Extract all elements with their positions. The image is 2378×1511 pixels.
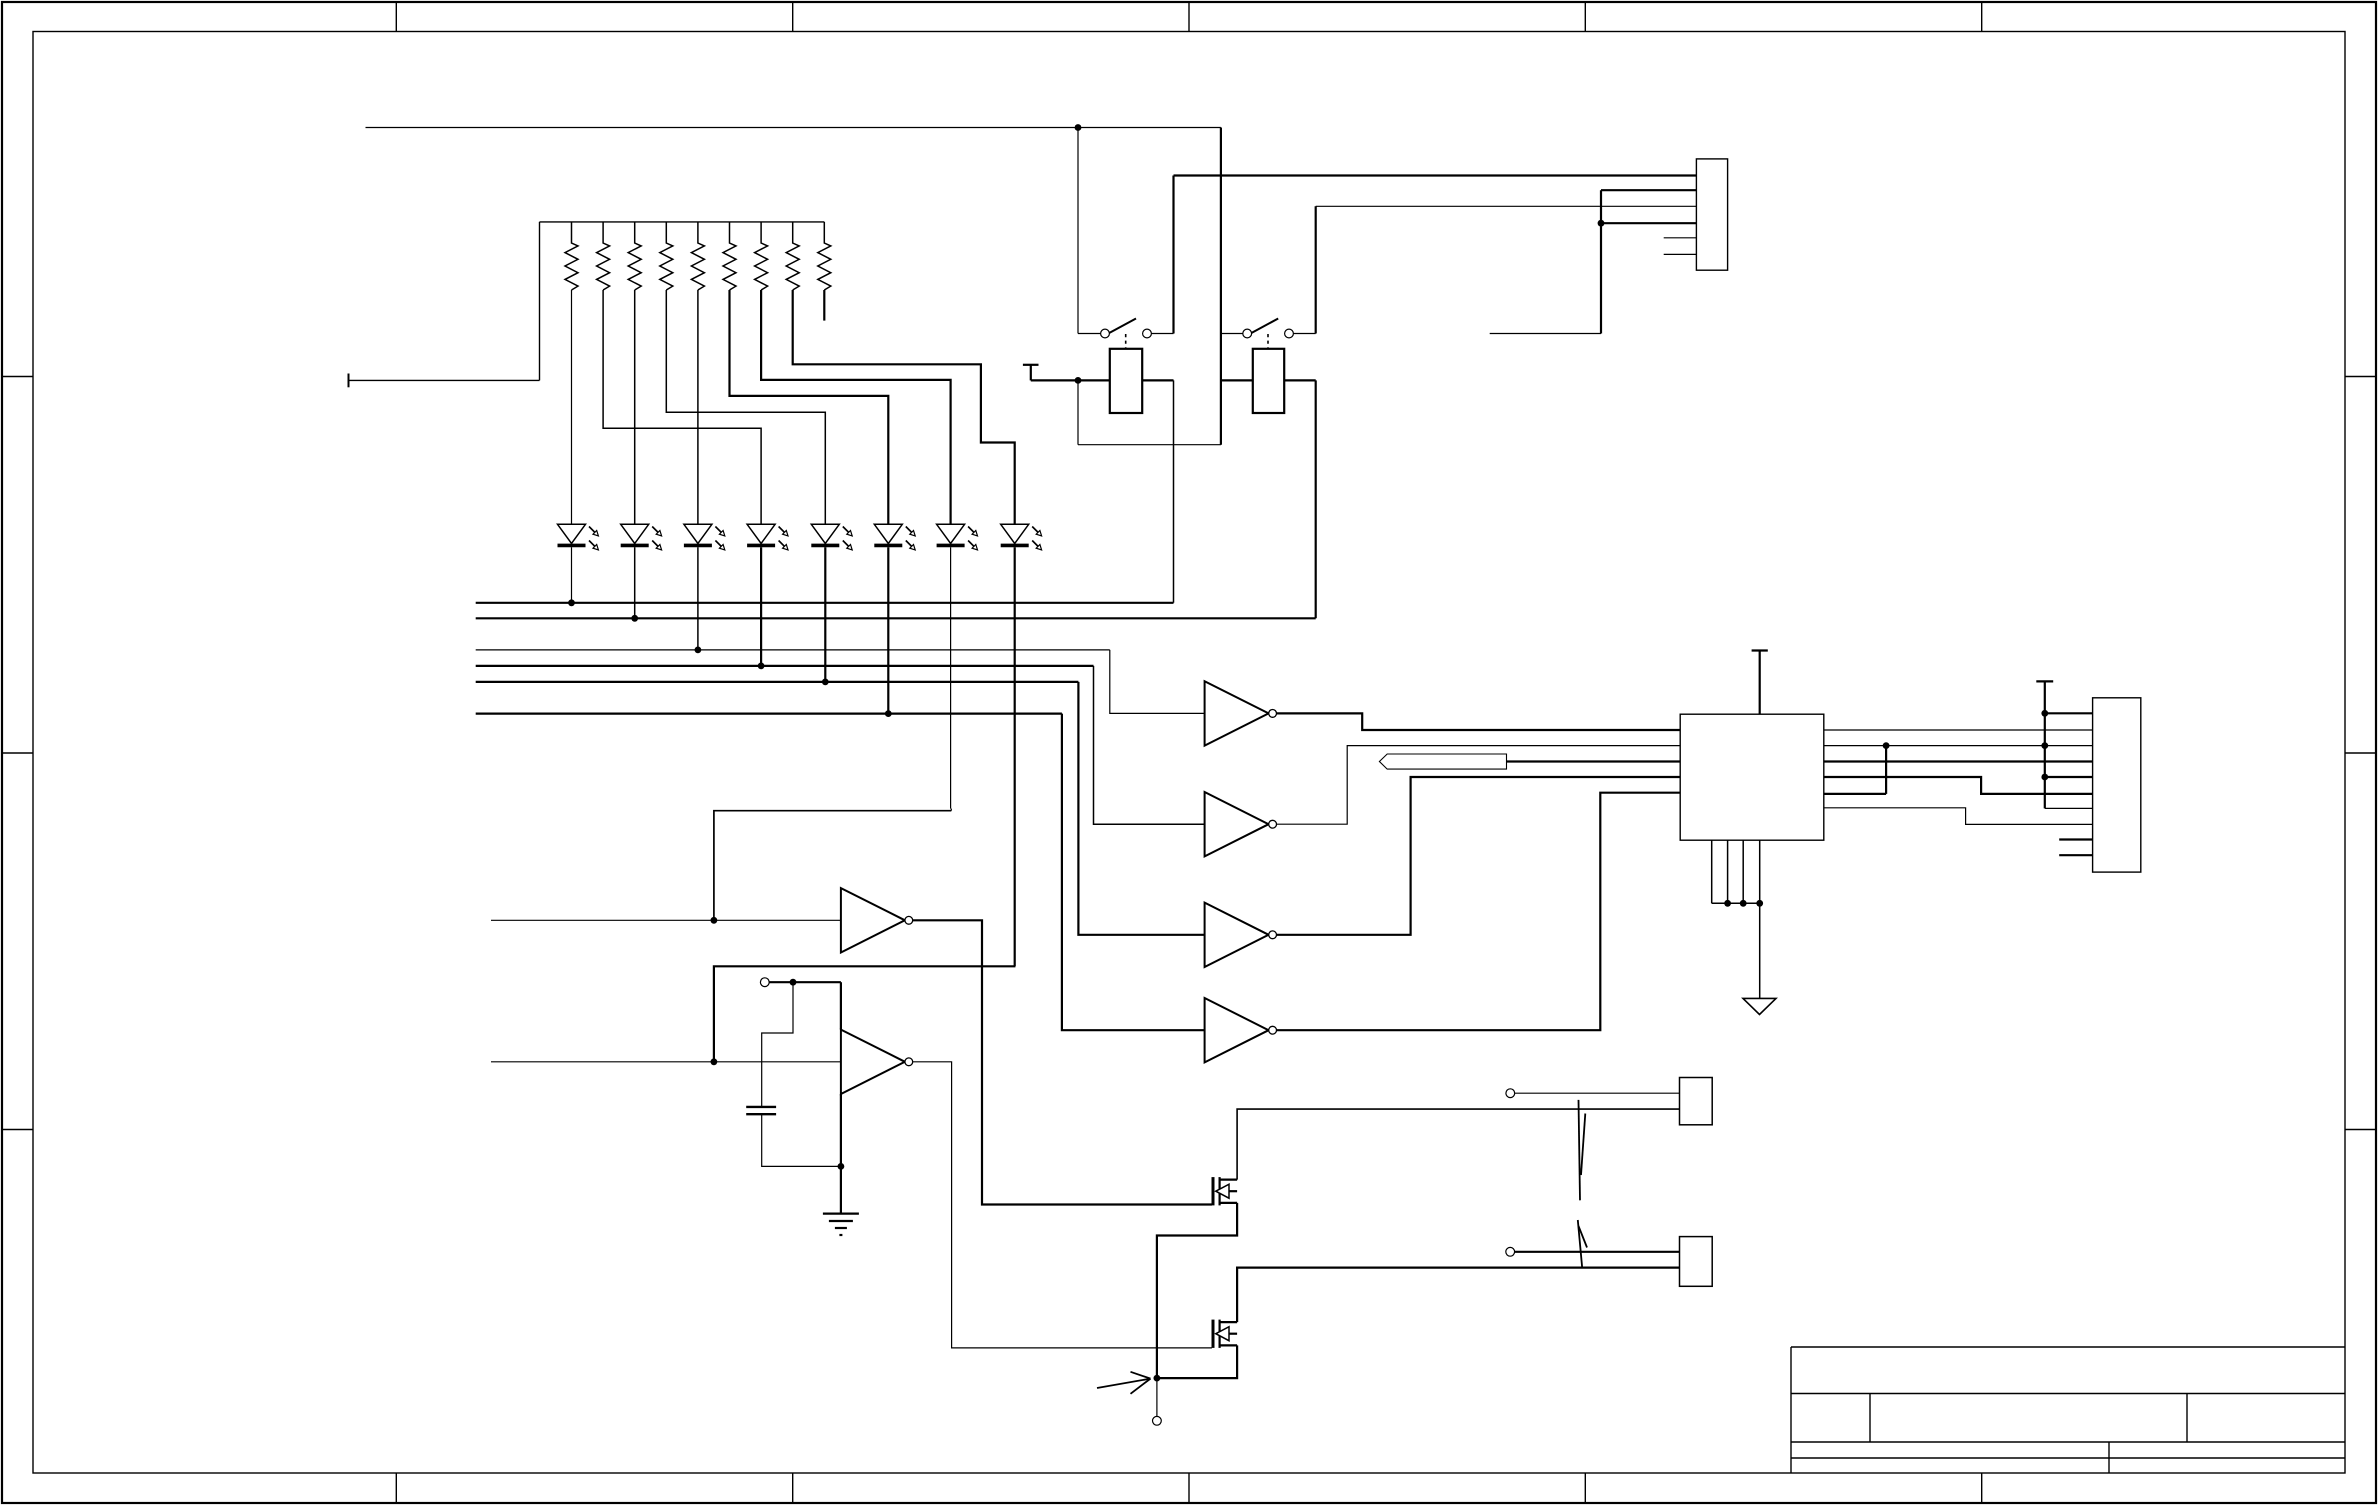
resistor R7 <box>755 222 768 290</box>
switch S1 right contact <box>1143 329 1152 338</box>
wire U5 pin row F jog <box>1824 808 2093 825</box>
terminal U7 fb circle <box>760 978 769 987</box>
wire LED D6 cathode <box>887 547 889 713</box>
wire N1 riser <box>1600 190 1602 333</box>
wire fb a <box>769 981 841 983</box>
junction rail rowB <box>2041 742 2048 749</box>
junction L5 D5 <box>822 679 829 686</box>
junction source node <box>1154 1375 1161 1382</box>
wire R6 staircase to LED D6 <box>730 290 889 524</box>
wire LED D8 cathode <box>1014 547 1016 966</box>
border tick bottom 1 <box>395 1473 397 1503</box>
border tick left 2 <box>2 752 33 754</box>
IC U5 <box>1680 714 1824 840</box>
wire U5 pin row B <box>1824 745 2093 747</box>
wire probe drop <box>1156 1378 1158 1416</box>
transistor Q2 <box>1213 1320 1237 1348</box>
wire K2 coil feed riser <box>1220 128 1222 445</box>
junction fb <box>790 979 797 986</box>
wire LED D7 cathode <box>950 547 952 808</box>
wire rail to J3 pin1 <box>2045 712 2093 714</box>
wire U5 pin row A <box>1824 729 2093 731</box>
resistor R8 <box>786 222 799 290</box>
connector J3 stub A <box>2059 838 2092 840</box>
probe arrow <box>1097 1372 1151 1394</box>
wire J4 tip lead <box>1515 1092 1680 1094</box>
junction U7 input <box>711 1058 718 1065</box>
wire R4 staircase to LED D5 <box>666 290 825 524</box>
wire cap C1 lead bottom <box>762 1114 841 1166</box>
terminal T4 bar <box>2036 680 2053 682</box>
wire R5 to LED D3 anode <box>697 290 699 524</box>
inverter U3 <box>1205 903 1277 967</box>
wire relay bus left <box>1031 379 1110 381</box>
IC U5 bottom pin 1 <box>1711 840 1713 903</box>
junction pin bus 3 <box>1756 900 1763 907</box>
border tick top 3 <box>1188 2 1190 32</box>
LED D5 <box>811 524 852 550</box>
wire R2 staircase to LED D4 <box>603 290 761 524</box>
wire relay K1 output drop <box>1173 380 1175 602</box>
IC U5 bottom pin 2 <box>1727 840 1729 903</box>
wire net L6 <box>476 712 1062 714</box>
wire U7 output to Q2 gate <box>913 1062 1212 1348</box>
LED D8 <box>1001 524 1042 550</box>
wire N1 to connector J2 pin2 <box>1601 189 1696 191</box>
power rail stem <box>2044 681 2046 808</box>
IC U5 bottom pin 4 <box>1759 840 1761 903</box>
junction pin bus 2 <box>1740 900 1747 907</box>
junction rail rowD <box>2041 774 2048 781</box>
LED D2 <box>621 524 662 550</box>
terminal jack J5 tip <box>1506 1247 1515 1256</box>
wire net L3 <box>476 649 1110 651</box>
wire D8 to U7 input <box>714 966 1016 1062</box>
wire net L1 <box>476 602 1174 604</box>
switch S1 left contact <box>1101 329 1110 338</box>
wire U2 output to IC U5 <box>1277 746 1681 825</box>
wire net L2 <box>476 617 1316 619</box>
jack J4 lever <box>1579 1100 1586 1200</box>
title block row line 2 <box>1791 1441 2345 1443</box>
border tick left 1 <box>2 376 33 378</box>
LED D3 <box>684 524 725 550</box>
wire S2 to connector J2 pin3 <box>1316 205 1697 207</box>
wire S2 left contact lead <box>1221 333 1243 335</box>
wire cap C1 lead top <box>762 982 793 1107</box>
ground G2 <box>823 1214 859 1235</box>
resistor R5 <box>691 222 704 290</box>
switch S2 right contact <box>1285 329 1294 338</box>
wire U7 to ground G2 <box>840 1094 842 1214</box>
title block divider C <box>2108 1442 2110 1473</box>
wire relay K1 to node <box>1142 379 1173 381</box>
junction rail row0 <box>2041 710 2048 717</box>
border tick bottom 4 <box>1584 1473 1586 1503</box>
transistor Q1 <box>1213 1177 1237 1205</box>
connector J2 stub pin6 <box>1664 253 1697 255</box>
switch S2 linkage dashed <box>1267 334 1269 349</box>
border tick top 1 <box>395 2 397 32</box>
terminal T3 bar <box>1752 649 1768 651</box>
wire K2 coil feed drop <box>1077 380 1079 444</box>
wire U6 output to Q1 gate <box>913 920 1212 1204</box>
wire K2 coil feed horizontal <box>1078 444 1221 446</box>
wire U5 pin row D jog <box>1824 777 2093 794</box>
junction top rail / switch S1 feed <box>1075 124 1082 131</box>
wire R9 stub <box>823 290 825 321</box>
border tick right 2 <box>2345 752 2376 754</box>
title block divider B <box>2186 1394 2188 1443</box>
border tick top 4 <box>1584 2 1586 32</box>
wire LED D5 cathode <box>824 547 826 682</box>
switch S2 blade <box>1251 319 1278 334</box>
wire S1 riser <box>1172 176 1174 334</box>
wire R3 to LED D2 anode <box>634 290 636 524</box>
terminal T1 bar <box>1023 364 1039 366</box>
wire net L5 <box>476 681 1079 683</box>
junction relay bus <box>1075 377 1082 384</box>
wire R1 to LED D1 anode <box>571 290 573 524</box>
wire U6 input stub <box>491 919 841 921</box>
connector J2 <box>1696 159 1727 270</box>
LED D7 <box>937 524 978 550</box>
wire Q1 source <box>1157 1203 1237 1378</box>
junction L1 D1 <box>568 599 575 606</box>
wire L4 to inverter U2 input <box>1094 666 1205 824</box>
border tick top 5 <box>1981 2 1983 32</box>
switch S1 linkage dashed <box>1125 334 1127 349</box>
wire L3 to inverter U1 input <box>1110 650 1205 714</box>
connector J2 stub pin5 <box>1664 237 1697 239</box>
relay K1 coil <box>1110 349 1142 413</box>
relay K2 coil <box>1253 349 1284 413</box>
wire S1 to connector J2 pin1 <box>1174 174 1697 176</box>
LED D6 <box>874 524 915 550</box>
wire S1 right contact lead <box>1151 333 1173 335</box>
junction L2 D2 <box>631 615 638 622</box>
LED D4 <box>747 524 788 550</box>
connector J3 stub B <box>2059 854 2092 856</box>
title block row line 3 <box>1791 1457 2345 1459</box>
junction L3 D3 <box>695 647 702 654</box>
title block row line 1 <box>1791 1393 2345 1395</box>
buffer U6 <box>841 888 913 952</box>
wire D7 link riser <box>950 809 952 811</box>
switch S2 left contact <box>1243 329 1252 338</box>
jack J4 <box>1680 1078 1713 1125</box>
capacitor C1 <box>746 1107 776 1114</box>
terminal T2 bar <box>348 374 350 388</box>
wire N1 to connector J2 pin4 <box>1601 222 1696 224</box>
wire D7 cathode link <box>714 811 951 921</box>
inverter U4 <box>1205 998 1277 1062</box>
wire bottom pin bus <box>1712 902 1760 904</box>
border tick bottom 5 <box>1981 1473 1983 1503</box>
wire L6 to inverter U4 input <box>1062 714 1205 1031</box>
resistor R1 <box>565 222 578 290</box>
inverter U2 <box>1205 792 1277 856</box>
terminal T1 stem <box>1030 365 1032 381</box>
junction pin bus 1 <box>1724 900 1731 907</box>
wire Q2 drain to jack J5 <box>1237 1268 1679 1323</box>
wire LED D3 cathode <box>697 547 699 650</box>
LED D1 <box>558 524 599 550</box>
junction row B drop <box>1883 742 1890 749</box>
title block divider A <box>1869 1394 1871 1443</box>
terminal probe circle <box>1153 1416 1162 1425</box>
border tick bottom 2 <box>792 1473 794 1503</box>
junction U6 input <box>711 917 718 924</box>
wire K2 output lead <box>1284 379 1316 381</box>
border tick left 3 <box>2 1129 33 1131</box>
wire to ground G1 <box>1759 903 1761 998</box>
junction cap to ground <box>838 1163 845 1170</box>
jack J5 lever <box>1578 1220 1587 1268</box>
wire rail branch rowD <box>2045 776 2093 778</box>
wire U1 output to IC U5 <box>1277 713 1681 730</box>
wire LED D2 cathode <box>634 547 636 618</box>
resistor R2 <box>597 222 610 290</box>
wire U4 output riser <box>1277 793 1681 1030</box>
wire arrow net to IC U5 <box>1507 760 1681 762</box>
wire U5 pin row C <box>1824 760 2093 762</box>
resistor R9 <box>818 222 831 290</box>
wire resistor bus <box>540 221 825 223</box>
wire K2 output drop <box>1315 380 1317 618</box>
wire to S1 left contact <box>1078 333 1100 335</box>
border tick bottom 3 <box>1188 1473 1190 1503</box>
junction N1 pin4 tap <box>1598 220 1605 227</box>
wire K2 coil left lead <box>1221 379 1253 381</box>
wire S2 right contact lead <box>1293 333 1315 335</box>
IC U5 bottom pin 3 <box>1742 840 1744 903</box>
title block outline <box>1791 1347 2345 1473</box>
ground G1 arrow <box>1743 998 1776 1014</box>
wire rail bottom to J3 <box>2045 807 2093 809</box>
resistor R3 <box>628 222 641 290</box>
resistor R4 <box>660 222 673 290</box>
buffer U7 <box>841 1030 913 1094</box>
terminal jack J4 tip <box>1506 1089 1515 1098</box>
junction L6 D6 <box>885 710 892 717</box>
jack J5 <box>1680 1237 1713 1287</box>
wire LED D1 cathode <box>571 547 573 603</box>
wire S1 feed drop <box>1077 128 1079 334</box>
switch S1 blade <box>1109 319 1136 334</box>
border tick right 3 <box>2345 1129 2376 1131</box>
wire U3 output to IC U5 <box>1277 777 1681 935</box>
resistor R6 <box>723 222 736 290</box>
wire resistor bus left drop <box>539 222 541 381</box>
junction L4 D4 <box>758 663 765 670</box>
wire row B drop <box>1885 746 1887 794</box>
wire left terminal lead <box>349 379 540 381</box>
inverter U1 <box>1205 681 1277 745</box>
wire R8 staircase to LED D8 <box>793 290 1015 524</box>
wire net L4 <box>476 665 1094 667</box>
wire J5 tip lead <box>1515 1251 1680 1253</box>
connector J3 <box>2093 698 2141 872</box>
wire Q2 source <box>1157 1345 1237 1378</box>
wire fb b <box>840 982 842 1029</box>
border tick top 2 <box>792 2 794 32</box>
border tick right 1 <box>2345 376 2376 378</box>
wire top rail <box>366 127 1221 129</box>
wire R7 staircase to LED D7 <box>761 290 951 524</box>
wire U7 input stub <box>491 1061 841 1063</box>
wire LED D4 cathode <box>760 547 762 666</box>
wire Q1 drain to jack J4 <box>1237 1109 1679 1180</box>
wire S2 riser <box>1315 206 1317 333</box>
wire L5 to inverter U3 input <box>1078 682 1204 935</box>
bus arrow marker <box>1379 754 1506 769</box>
wire U5 pin row E <box>1824 793 1886 795</box>
IC U5 top pin <box>1759 651 1761 714</box>
wire stub net N1 <box>1490 333 1601 335</box>
